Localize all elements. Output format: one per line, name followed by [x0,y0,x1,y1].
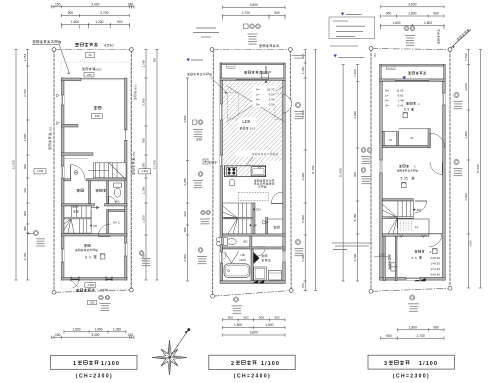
plan2 left annotation lower [198,248,203,253]
svg-text:2,700: 2,700 [23,89,27,97]
plan3 FIX note [334,55,337,58]
plan1 genkan label [77,189,84,192]
title box 2F [209,355,295,369]
svg-text:1: 1 [73,361,76,367]
plan3 top dim row3 1800/1800 [381,24,444,26]
svg-text:2,700: 2,700 [100,11,108,15]
svg-text:1,500: 1,500 [71,20,79,24]
plan2 DN label [253,209,255,211]
plan1 stair storage label [73,206,78,208]
plan1 left wall window garage [62,95,65,105]
plan2 bottom dim row2 [223,326,286,328]
svg-text:1,344: 1,344 [141,169,148,173]
svg-text:1,800: 1,800 [392,21,400,25]
svg-text:1,050: 1,050 [94,327,102,331]
plan2 fridge [230,179,235,185]
plan1 WC room [107,181,109,204]
plan3 mid wall under stairs [382,234,429,237]
svg-text:450: 450 [183,227,187,232]
svg-text:-1: -1 [413,165,416,169]
plan1 boundary right label [132,158,135,175]
plan2 bottom dim row3 [223,334,286,336]
svg-text:11,700: 11,700 [12,160,16,169]
svg-text:L=8.35: L=8.35 [431,261,441,265]
plan3 left annotations [361,148,366,153]
plan3 bottom dim row1 [397,329,444,331]
plan1 left annotation circle [33,230,38,235]
compass half fills [168,340,170,358]
title box 3F [368,355,454,369]
compass needle [170,331,189,358]
svg-text:980: 980 [154,57,157,62]
svg-text:11,450: 11,450 [476,164,480,173]
plan1 wall genkan-hall [89,181,91,204]
plan1 hall label [96,189,106,192]
plan3 glass legend lines [333,20,348,22]
svg-text:3,400: 3,400 [91,2,99,6]
svg-text:900: 900 [433,12,439,16]
svg-text:(H650): (H650) [94,67,102,71]
svg-text:2,700: 2,700 [416,334,424,338]
plan1 boundary bottom [54,290,131,292]
svg-text:-2: -2 [429,250,432,254]
svg-text:A=: A= [385,89,389,93]
svg-text:900: 900 [23,211,27,216]
plan2 top wall with window [220,78,285,81]
svg-text:240: 240 [128,2,134,6]
svg-text:-200: -200 [89,300,95,304]
plan3 right dim outer [479,50,481,289]
svg-text:150: 150 [55,2,61,6]
plan3 1190 dim [374,256,389,258]
svg-text:CL: CL [415,225,419,229]
svg-text:CL: CL [410,136,414,140]
plan3 left wall [380,82,383,281]
svg-text:700: 700 [301,283,305,288]
plan1 boundary left label [48,133,51,150]
svg-text:1/100: 1/100 [261,361,280,367]
svg-text:V=1.44: V=1.44 [430,267,440,271]
svg-text:2,700: 2,700 [353,253,357,261]
plan2 stove [227,167,237,175]
svg-text:1,200: 1,200 [95,20,103,24]
plan1 bottom dim row1 [64,331,126,333]
svg-text:3,600: 3,600 [250,3,258,7]
plan2 right wall [283,81,286,281]
plan1 bottom door arc outside [73,281,79,288]
svg-text:1,100: 1,100 [142,186,146,194]
svg-text:3,400: 3,400 [91,333,99,337]
plan3 boundary bottom [371,288,450,291]
plan3 DN label [414,209,416,211]
plan1 road boundary label [75,43,97,47]
plan3 stair door [415,200,427,202]
plan3 stair hall wall [382,199,413,201]
plan2 left wall [220,81,223,281]
plan2 right annotations [295,102,300,107]
plan1 plusminus box [86,53,95,58]
svg-text:-150: -150 [86,73,92,77]
svg-text:900: 900 [386,334,392,338]
svg-text:-150: -150 [94,114,100,118]
plan1 left wall window bottom room [62,249,65,262]
plan1 entrance wall stub [64,179,71,181]
plan1 lower stair [64,206,91,233]
svg-text:V=: V= [256,97,260,101]
svg-text:2,700: 2,700 [242,11,250,15]
svg-text:CL: CL [389,138,393,142]
svg-text:6. 0: 6. 0 [85,255,91,259]
svg-text:900: 900 [68,11,74,15]
plan3 top wall [380,79,446,82]
svg-text:900: 900 [274,11,280,15]
plan2 wall above bath [223,247,286,249]
svg-text:W=200: W=200 [227,67,234,69]
plan2 UP label [250,224,252,226]
plan2 washing machine [254,267,267,280]
svg-text:5. 0: 5. 0 [411,256,416,260]
plan2 left wall window bath [220,252,223,263]
plan1 left dim boxed label [34,169,46,174]
plan2 top dim row1 3600 [223,6,286,8]
plan2 bath UB [223,249,252,281]
svg-text:3,000: 3,000 [464,83,468,91]
plan1 toilet 1F [114,183,122,187]
svg-text:6. 9: 6. 9 [404,108,410,112]
svg-text:DN: DN [256,208,260,212]
plan2 balcony walls [220,63,285,65]
svg-text:±0: ±0 [88,53,92,57]
plan2 WC room [250,236,252,247]
plan1 bottom dim row2 [52,336,135,338]
plan2 door note text [254,180,274,182]
plan3 right dim inner [468,50,470,289]
plan2 closet [266,218,268,235]
plan2 left annotation faucet pair [201,210,205,214]
title box 1F [51,356,138,370]
plan3 power line arrow [450,30,471,49]
plan3 monohoshi fixture [391,263,395,271]
plan2 bay window right [285,95,292,114]
svg-text:1,190: 1,190 [379,253,386,256]
plan3 balcony walls [380,65,446,67]
plan3 vertical boundary label [437,29,439,44]
svg-text:1,754: 1,754 [23,54,27,62]
svg-text:W I C: W I C [113,221,120,225]
plan3 bottom wall window room2 [406,277,420,280]
svg-text:1,050: 1,050 [113,327,121,331]
plan1 room door [98,235,110,237]
svg-text:8.91: 8.91 [398,94,404,98]
plan3 balcony strip [384,236,386,280]
plan3 bottom annotation [410,295,415,300]
svg-text:350: 350 [23,226,27,231]
plan3 room1 label [406,102,416,105]
svg-text:(CH=2300): (CH=2300) [76,374,113,380]
plan1 left boundary tick triangles [57,94,60,97]
svg-text:W=200: W=200 [387,68,394,70]
plan2 area figures box [253,86,276,108]
plan1 WC door arc [108,196,110,203]
svg-text:2,760: 2,760 [23,252,27,260]
plan2 fridge dashed box [238,193,268,201]
plan2 right dim inner [304,50,306,291]
svg-text:900: 900 [275,315,280,319]
plan2 left annotations [193,120,197,124]
plan3 glass legend note [330,45,358,47]
plan1 bottom-mid wall [62,234,128,237]
svg-text:2: 2 [231,361,234,367]
plan3 room2 labels [415,250,425,253]
svg-text:900: 900 [228,315,233,319]
svg-text:900: 900 [386,12,392,16]
plan3 room2 door [429,233,442,235]
plan2 washroom label [262,255,267,257]
svg-text:900: 900 [117,20,123,24]
svg-text:11,450: 11,450 [339,168,343,177]
svg-text:16.5: 16.5 [250,127,256,131]
svg-text:900: 900 [23,164,27,169]
plan3 boundary right [449,50,451,289]
svg-text:2,060: 2,060 [183,254,187,262]
svg-text:9.64: 9.64 [269,92,275,96]
plan2 sink [251,167,265,176]
svg-text:(CH=2300): (CH=2300) [393,374,430,380]
svg-text:1,100: 1,100 [353,69,357,77]
svg-text:11,700: 11,700 [153,160,157,169]
plan1 garage door line [81,78,125,80]
plan3 CL mid [398,219,429,234]
plan2 left wall window WC [220,238,223,245]
svg-text:11,700: 11,700 [311,165,315,174]
plan1 top dim row1 150/3400/240 [52,6,135,8]
plan3 nando room [399,165,409,168]
plan1 right dim boxed label [139,169,151,174]
svg-text:16,700: 16,700 [132,151,136,160]
svg-text:754: 754 [374,53,377,58]
plan2 FIX note [187,59,190,62]
plan2 boundary right [289,50,292,291]
svg-text:2,990: 2,990 [353,111,357,119]
svg-text:1,750: 1,750 [464,53,468,61]
plan1 bottom wall [62,278,128,281]
svg-text:4,570: 4,570 [100,288,108,292]
plan3 left dim inner [357,65,359,282]
plan1 boundary left [53,50,55,293]
plan2 bottom dim row1 [223,319,286,321]
plan2 right dim outer [314,50,316,291]
svg-text:1.48: 1.48 [398,99,404,103]
plan3 boundary left [370,49,372,292]
plan3 bottom wall [380,277,446,280]
plan2 washroom wall [251,249,253,281]
plan3 balcony interior [387,66,396,69]
svg-text:S=0.40: S=0.40 [430,273,440,277]
plan1 UP label [90,225,92,227]
plan3 stairs [382,201,413,234]
svg-text:900: 900 [433,325,439,329]
plan2 LDK hatch [223,81,283,161]
svg-text:690: 690 [142,138,146,143]
svg-text:UB: UB [240,253,244,257]
plan1 boundary road line [54,49,131,51]
plan1 boundary right [130,50,132,291]
plan2 left wall window LDK [220,104,223,120]
plan1 garage mid stub [62,124,79,127]
plan2 right wall window lower [283,251,286,262]
plan1 bottom annotation [99,295,104,300]
plan2 hall door top right [271,203,283,205]
plan1 storage room labels [84,244,90,247]
plan2 bath folding door [225,252,232,264]
plan2 boundary bottom [213,291,292,297]
svg-text:A=8.10: A=8.10 [430,256,440,260]
svg-text:WC: WC [115,200,120,204]
plan3 boundary circles [369,47,373,51]
svg-text:5. 25: 5. 25 [400,177,407,181]
svg-text:1,100: 1,100 [301,66,305,74]
plan2 boundary circles [210,48,214,52]
svg-text:3,600: 3,600 [250,331,258,335]
svg-text:1,800: 1,800 [424,21,432,25]
plan2 WC door [256,246,265,248]
plan1 foundation note [82,68,95,71]
plan2 bottom annotation [233,297,238,302]
plan2 kitchen annotation [236,151,270,157]
plan1 sleeve note [33,40,61,43]
plan2 top dim row2 2700/900 [223,15,286,17]
svg-text:DN: DN [417,208,421,212]
plan1 left dim inner [27,49,29,280]
svg-text:4,950: 4,950 [183,115,187,123]
svg-text:1.44: 1.44 [269,97,275,101]
plan1 bottom wall ticks [70,277,72,282]
svg-text:16,700: 16,700 [48,126,52,135]
plan1 boundary corner circles [52,48,56,52]
svg-text:WC: WC [243,240,248,244]
plan1 right dim inner [145,49,147,280]
svg-text:V=: V= [385,99,389,103]
plan2 left wall window kitchen [220,155,223,166]
plan2 LDK X cross [227,86,285,122]
svg-text:-1,300: -1,300 [87,283,95,287]
plan1 right dim outer [156,49,158,280]
plan1 left wall [62,78,65,280]
plan2 bathtub [224,264,250,278]
plan3 room1 doors [429,133,431,148]
svg-text:1,800: 1,800 [409,325,417,329]
svg-text:4,650: 4,650 [464,131,468,139]
svg-text:11.25: 11.25 [396,89,404,93]
plan2 LDK label [238,118,256,131]
plan3 bottom wall marks [400,235,404,238]
svg-text:1/100: 1/100 [101,361,120,367]
svg-text:S=: S= [385,104,389,108]
plan3 right wall window room1 [443,93,446,105]
plan1 garage front L wall [62,78,82,81]
svg-text:2,250: 2,250 [301,215,305,223]
compass rose [152,340,187,375]
plan1 upper stair run [94,163,127,178]
svg-text:410: 410 [23,188,27,193]
plan2 boundary top [212,49,290,51]
plan1 mid wall [62,204,95,206]
plan3 bottom wall bowtie mark [414,278,426,281]
svg-text:900: 900 [259,315,264,319]
plan3 top dim row2 900/1800/900 [381,15,444,17]
plan1 right wall window gap [125,129,128,131]
plan2 top-left note text [196,27,216,29]
svg-text:3,900: 3,900 [301,172,305,180]
svg-text:LDK: LDK [242,119,250,124]
svg-text:3,390: 3,390 [301,254,305,262]
svg-text:2,760: 2,760 [142,98,146,106]
svg-text:1616: 1616 [239,258,246,262]
plan3 right wall [443,82,446,281]
svg-text:2,250: 2,250 [183,178,187,186]
svg-text:1/100: 1/100 [419,361,438,367]
plan1 top dim row3 [61,24,129,26]
plan1 top dim row2 900/2700 [61,15,129,17]
svg-text:3,600: 3,600 [408,2,416,6]
plan2 LDK hatch lower [223,161,266,177]
plan2 mid wall above WC [223,234,286,236]
svg-text:1,810: 1,810 [142,215,146,223]
svg-text:L=: L= [385,94,389,98]
svg-text:-1: -1 [417,102,420,106]
plan3 left dim outer [342,65,344,282]
plan2 washroom cabinet [269,271,282,281]
svg-text:2,890: 2,890 [469,240,473,247]
plan2 left dim [187,78,189,281]
plan1 right boundary foundation note [134,91,136,99]
plan2 toilet 2F [224,238,228,246]
plan3 right annotations [454,92,459,97]
plan2 bottom wall [220,281,285,284]
svg-text:900: 900 [243,315,248,319]
svg-text:3,690: 3,690 [464,193,468,201]
plan3 top dim row1 3600 [381,6,444,8]
plan2 washroom dark door mark [254,252,260,264]
svg-text:L=: L= [256,92,260,96]
svg-text:4,510: 4,510 [104,44,114,48]
plan2 washer fixture outside [216,237,220,241]
svg-text:1,500: 1,500 [72,327,80,331]
plan3 top annotation circles [404,26,409,31]
plan1 left dim outer [15,49,17,280]
plan1 right wall window lower room [125,243,128,256]
plan3 balcony strip label [388,255,390,269]
plan1 entrance door [70,165,72,179]
plan1 WIC [107,210,109,234]
plan1 right wall upper [125,78,128,130]
svg-text:8,150: 8,150 [353,213,357,221]
plan2 stairs [223,203,253,234]
plan2 top annotation circles [244,24,249,29]
plan3 CL walls [382,132,384,148]
plan2 road-side label [259,44,279,47]
plan2 stair walls [253,203,255,234]
svg-text:150: 150 [55,333,61,337]
plan1 garage-house wall [62,153,94,156]
plan1 stair arrow [91,207,99,209]
svg-text:26.73: 26.73 [267,87,275,91]
plan1 setback dotted rect [61,62,130,289]
svg-text:1,800: 1,800 [234,323,242,327]
svg-text:1,800: 1,800 [23,133,27,141]
svg-text:(CH=2400): (CH=2400) [234,374,271,380]
plan2 kitchen counter hatch [225,166,266,177]
